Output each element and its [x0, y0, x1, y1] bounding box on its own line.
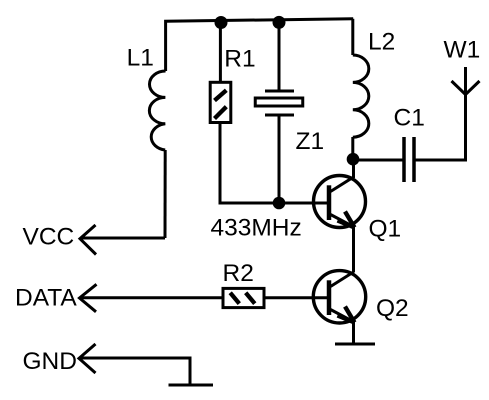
arrow GND [79, 344, 96, 373]
crystal Z1 top lead [278, 19, 281, 91]
svg-text:GND: GND [23, 348, 77, 375]
wire L2 to node [351, 137, 354, 160]
wire Q1 emitter to Q2 collector [352, 227, 355, 273]
svg-text:L2: L2 [368, 29, 395, 56]
wire R1 top lead [219, 20, 222, 83]
resistor R2 [223, 288, 264, 307]
transistor Q2 collector [331, 272, 354, 287]
wire GND lead [80, 358, 190, 385]
transistor Q1 base bar [327, 185, 332, 220]
transistor Q2 circle [313, 271, 365, 323]
ground GND [169, 384, 214, 387]
wire Q2 emitter to ground [352, 322, 355, 344]
svg-text:W1: W1 [444, 37, 481, 64]
svg-text:DATA: DATA [15, 285, 77, 312]
node dot top-right [273, 16, 286, 29]
inductor L1 [149, 71, 165, 150]
svg-text:VCC: VCC [23, 224, 75, 251]
capacitor C1 [404, 137, 414, 182]
resistor R1 hatch [215, 90, 227, 118]
wire top rail [166, 19, 354, 71]
arrow DATA [80, 284, 97, 312]
antenna W1 [452, 81, 480, 95]
wire C1 to antenna [414, 67, 466, 160]
svg-text:Z1: Z1 [296, 128, 325, 155]
svg-text:Q1: Q1 [369, 216, 402, 243]
wire R2 to Q2 base [264, 296, 329, 299]
svg-text:R2: R2 [223, 260, 254, 287]
crystal Z1 body [255, 98, 303, 106]
inductor L2 [353, 55, 369, 137]
svg-text:L1: L1 [127, 45, 154, 72]
svg-text:Q2: Q2 [376, 295, 409, 322]
transistor Q2 base bar [327, 280, 332, 315]
crystal Z1 top plate [265, 90, 294, 93]
arrow VCC [80, 225, 96, 255]
resistor R1 [210, 82, 231, 122]
svg-text:C1: C1 [394, 105, 425, 132]
node dot top-left [215, 16, 228, 29]
transistor Q2 emitter [331, 310, 355, 323]
wire VCC feed [81, 237, 165, 240]
wire L1 lower lead [164, 150, 167, 238]
svg-text:R1: R1 [224, 46, 255, 73]
transistor Q1 emitter arrow [338, 212, 355, 228]
wire Z1 bottom lead [278, 115, 281, 203]
wire L2 drop [351, 19, 354, 55]
wire DATA to R2 [80, 296, 224, 299]
ground Q2 [335, 343, 375, 346]
node Z1 base [273, 197, 286, 210]
resistor R2 hatch [230, 293, 255, 304]
transistor Q1 emitter [331, 215, 355, 228]
wire R1 bottom lead [220, 123, 329, 204]
transistor Q1 collector [331, 159, 354, 191]
transistor Q2 emitter arrow [338, 307, 355, 323]
wire node to C1 [352, 159, 404, 162]
node tank output [347, 153, 360, 166]
transistor Q1 circle [314, 176, 366, 228]
svg-text:433MHz: 433MHz [211, 215, 302, 242]
crystal Z1 bottom plate [265, 114, 294, 117]
